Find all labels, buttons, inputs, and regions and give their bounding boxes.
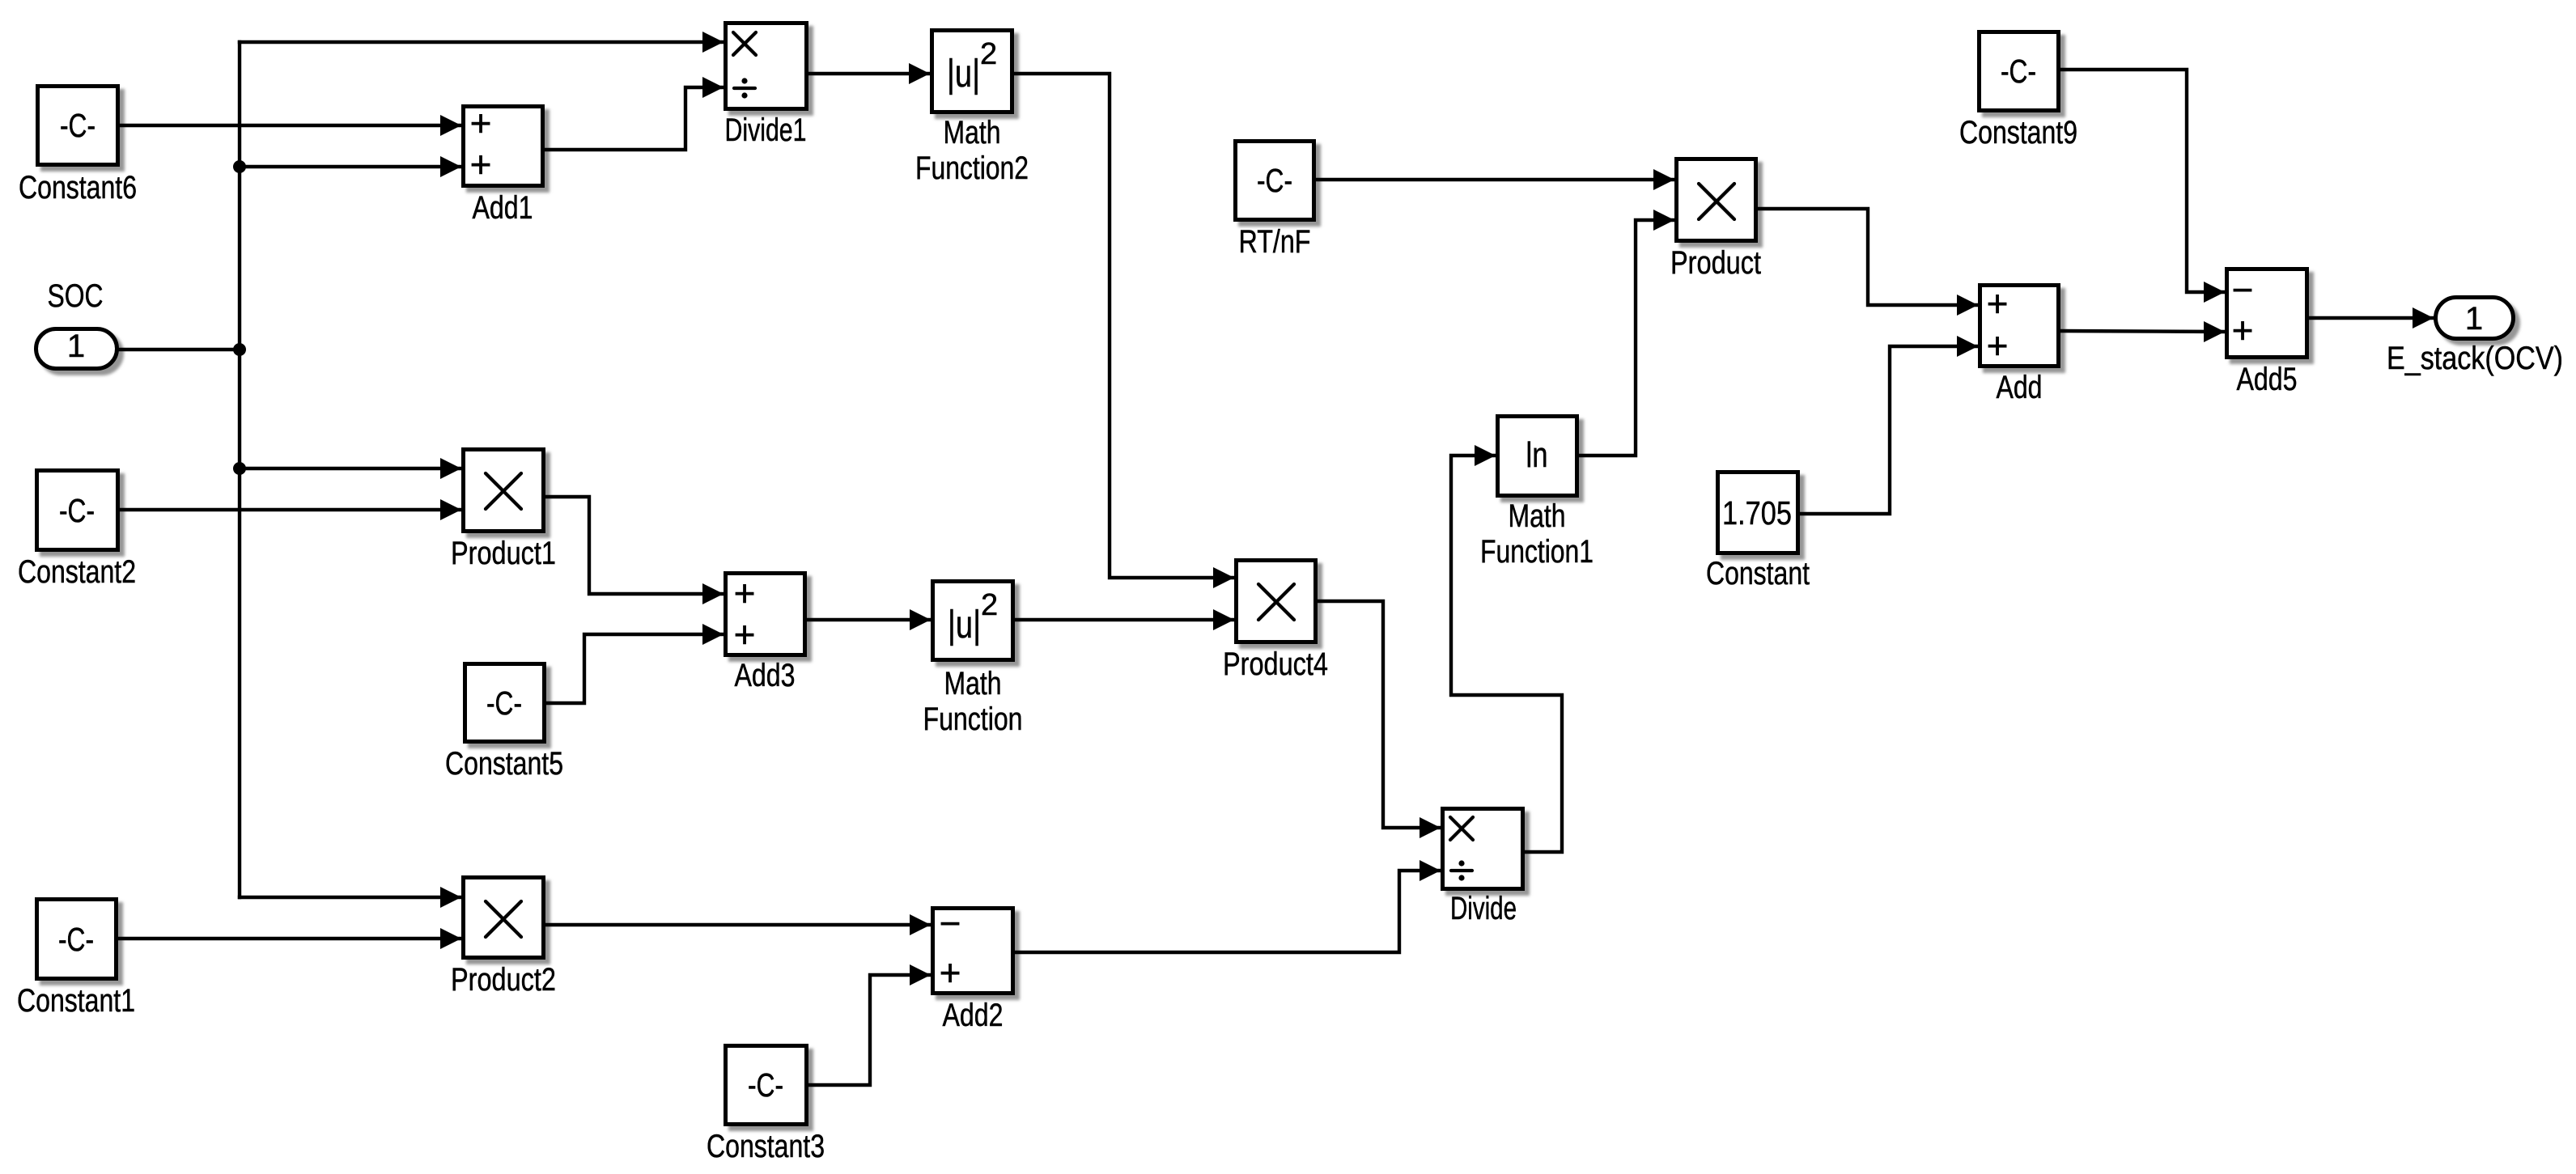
svg-text:2: 2 <box>980 37 997 71</box>
svg-text:Constant9: Constant9 <box>1959 115 2077 150</box>
svg-text:Add2: Add2 <box>943 998 1004 1033</box>
svg-text:Add5: Add5 <box>2237 362 2298 397</box>
svg-text:+: + <box>1987 282 2009 324</box>
svg-text:1.705: 1.705 <box>1722 494 1792 532</box>
svg-text:Product4: Product4 <box>1223 646 1328 682</box>
svg-text:Product2: Product2 <box>451 962 556 998</box>
svg-text:Math: Math <box>944 666 1002 701</box>
svg-text:Function2: Function2 <box>915 150 1029 186</box>
svg-text:RT/nF: RT/nF <box>1239 224 1311 260</box>
svg-text:Divide: Divide <box>1450 891 1517 926</box>
svg-text:Constant2: Constant2 <box>18 554 136 590</box>
svg-text:SOC: SOC <box>48 278 104 314</box>
svg-text:Product1: Product1 <box>451 536 556 571</box>
svg-text:Constant6: Constant6 <box>19 170 137 206</box>
svg-text:Constant3: Constant3 <box>707 1129 825 1164</box>
svg-text:−: − <box>2232 269 2254 311</box>
svg-text:Function1: Function1 <box>1480 534 1594 570</box>
svg-text:-C-: -C- <box>58 921 94 958</box>
svg-text:Constant: Constant <box>1706 556 1810 591</box>
svg-text:−: − <box>940 902 961 944</box>
svg-text:Product: Product <box>1670 245 1761 281</box>
svg-text:-C-: -C- <box>59 492 95 529</box>
svg-text:-C-: -C- <box>748 1066 783 1104</box>
svg-text:|u|: |u| <box>948 604 981 646</box>
svg-text:+: + <box>2232 309 2254 351</box>
svg-text:Constant5: Constant5 <box>445 746 563 782</box>
svg-text:-C-: -C- <box>486 684 522 722</box>
svg-text:+: + <box>470 143 492 185</box>
svg-text:Add3: Add3 <box>735 658 796 693</box>
svg-text:Add: Add <box>1997 370 2043 405</box>
svg-text:|u|: |u| <box>947 53 980 95</box>
svg-text:+: + <box>470 102 492 144</box>
svg-text:+: + <box>734 613 756 655</box>
svg-text:ln: ln <box>1526 435 1548 475</box>
svg-text:Math: Math <box>944 115 1001 150</box>
svg-text:1: 1 <box>67 328 85 364</box>
svg-text:Function: Function <box>923 701 1023 737</box>
svg-text:-C-: -C- <box>60 107 95 144</box>
svg-text:1: 1 <box>2465 301 2483 337</box>
svg-text:Add1: Add1 <box>473 190 533 226</box>
svg-text:-C-: -C- <box>1257 162 1292 199</box>
svg-text:Constant1: Constant1 <box>17 983 135 1019</box>
svg-text:+: + <box>1987 324 2009 367</box>
svg-text:E_stack(OCV): E_stack(OCV) <box>2387 341 2563 376</box>
svg-text:Math: Math <box>1509 498 1566 534</box>
svg-text:-C-: -C- <box>2001 53 2036 90</box>
svg-text:+: + <box>940 951 961 994</box>
svg-text:Divide1: Divide1 <box>725 112 807 148</box>
svg-text:2: 2 <box>981 588 998 622</box>
svg-text:+: + <box>734 572 756 614</box>
